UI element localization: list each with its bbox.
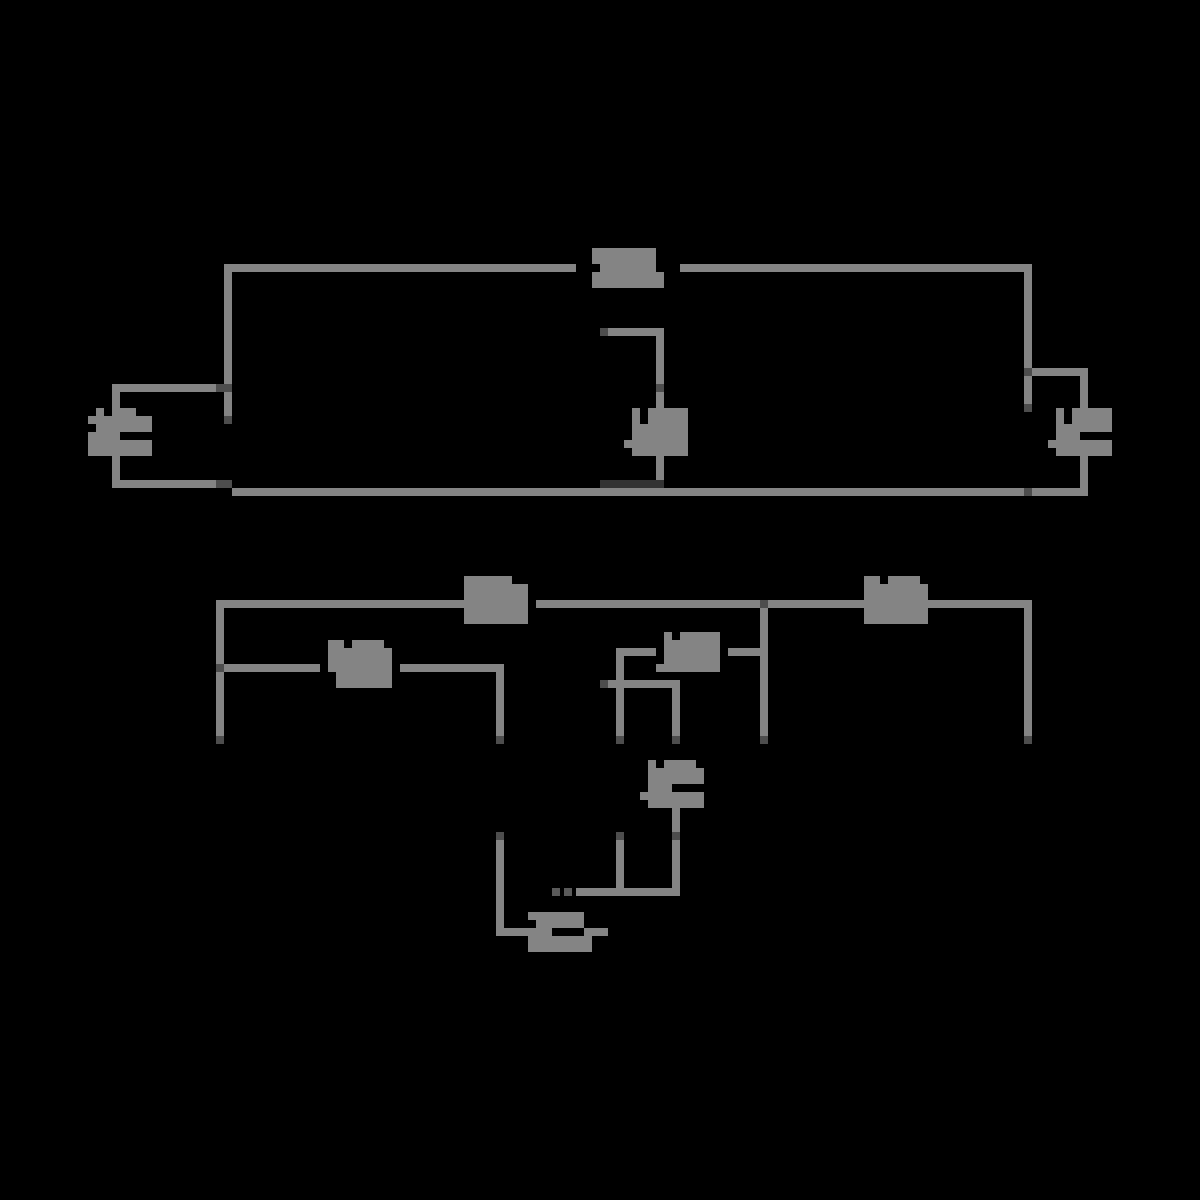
wire: source loop top tap bbox=[112, 384, 232, 392]
node: left vertical terminal nub bbox=[616, 736, 624, 744]
wire: middle-right branch vertical bbox=[760, 608, 768, 744]
wire: bottom wire hidden middle segment bbox=[232, 488, 608, 496]
wire: left vertical of circuit 2 bbox=[216, 600, 224, 744]
capacitor C2 label "8 uF" (right blob) bbox=[1048, 408, 1112, 456]
wire: lower middle horizontal bbox=[576, 888, 680, 896]
inductor L1 label "0.5 H" (bottom blob) bbox=[528, 912, 592, 952]
resistor R4 label "2 Ohm" (left middle blob) bbox=[328, 640, 392, 688]
capacitor C1 label "10 Ohm" (middle blob) bbox=[624, 408, 688, 456]
node: nub above left parallel vertical bbox=[616, 832, 624, 840]
wire: middle cluster left vertical bbox=[616, 648, 624, 736]
capacitor C3 label "100" (middle cluster blob) bbox=[656, 632, 720, 672]
voltage source V1 label "24 V" (left blob) bbox=[88, 408, 152, 456]
node: bottom right corner junction bbox=[1024, 488, 1032, 496]
wire: vertical down to bottom wire bbox=[496, 840, 504, 936]
node: lower terminal nub bbox=[496, 832, 504, 840]
resistor R1 label "4 Ohm" (top middle blob) bbox=[592, 248, 664, 288]
wire: right stub below junction bbox=[1024, 376, 1032, 404]
node: junction of right vertical and jog bbox=[1024, 368, 1032, 376]
wire: top wire left segment bbox=[216, 600, 528, 608]
wire: vertical below left resistor branch bbox=[496, 672, 504, 744]
node: T junction on left vertical bbox=[216, 664, 224, 672]
resistor R3 label "5 Ohm" (upper right blob) bbox=[864, 576, 928, 624]
resistor R2 label "3 Ohm" (upper left blob) bbox=[464, 576, 528, 624]
wire: middle cluster center vertical bbox=[672, 688, 680, 736]
wire: left vertical from top wire down to source V1 top terminal bbox=[224, 264, 232, 424]
node: arrow dashes at left of lower horizontal bbox=[552, 888, 560, 896]
wire: bottom wire left piece bbox=[496, 928, 552, 936]
wire: vertical from capacitor down to lower horizontal bbox=[672, 840, 680, 896]
node: terminal nub bbox=[496, 736, 504, 744]
wire: bottom wire right segment bbox=[608, 488, 1088, 496]
wire: top wire right segment bbox=[536, 600, 1032, 608]
wire: right vertical from top wire bbox=[1024, 264, 1032, 375]
wire: left parallel vertical to lower horizontal bbox=[616, 840, 624, 888]
node: middle branch junction nub bbox=[656, 384, 664, 392]
wire: right branch vertical lower lead bbox=[1080, 456, 1088, 488]
node: junction of top wire and middle-right branch bbox=[760, 600, 768, 608]
wire: middle branch vertical bbox=[656, 336, 664, 408]
node: nub above bbox=[672, 832, 680, 840]
node: middle-right branch bottom terminal bbox=[760, 736, 768, 744]
node: V1 top terminal nub bbox=[224, 416, 232, 424]
wire: top wire left segment, node A to R1 bbox=[224, 264, 576, 272]
node: far right vertical bottom terminal bbox=[1024, 736, 1032, 744]
wire: top wire right segment, R1 to node B bbox=[680, 264, 1032, 272]
node: junction at bottom of left vertical bbox=[216, 480, 232, 488]
wire: middle cluster second horizontal bbox=[608, 680, 680, 688]
capacitor C4 symbol and label (middle component blob) bbox=[640, 760, 704, 808]
wire: lead below capacitor C4 bbox=[672, 808, 680, 832]
wire: middle branch horizontal jog bbox=[600, 328, 664, 336]
wire: middle cluster right stub bbox=[728, 648, 768, 656]
wire: middle branch lower lead bbox=[656, 456, 664, 480]
node: stub end terminal bbox=[1024, 404, 1032, 412]
wire: left resistor branch, right lead bbox=[400, 664, 504, 672]
wire: source loop bottom bbox=[112, 480, 232, 488]
node: left vertical bottom terminal bbox=[216, 736, 224, 744]
wire: far right vertical of circuit 2 bbox=[1024, 608, 1032, 744]
wire: right branch vertical upper lead bbox=[1080, 376, 1088, 408]
node: left end terminal of jog bbox=[600, 328, 608, 336]
wire: bottom wire right piece bbox=[584, 928, 608, 936]
wire: middle cluster left horizontal bbox=[616, 648, 656, 656]
node: dark left end of second horizontal bbox=[600, 680, 608, 688]
node: center vertical terminal nub bbox=[672, 736, 680, 744]
wire: right branch horizontal jog bbox=[1032, 368, 1088, 376]
node: junction of tap and left vertical bbox=[216, 384, 232, 392]
wire: source loop left vertical bbox=[112, 384, 120, 488]
wire: bottom wire dark overlap patch under middle branch bbox=[600, 480, 664, 488]
wire: left resistor branch, left lead bbox=[224, 664, 320, 672]
